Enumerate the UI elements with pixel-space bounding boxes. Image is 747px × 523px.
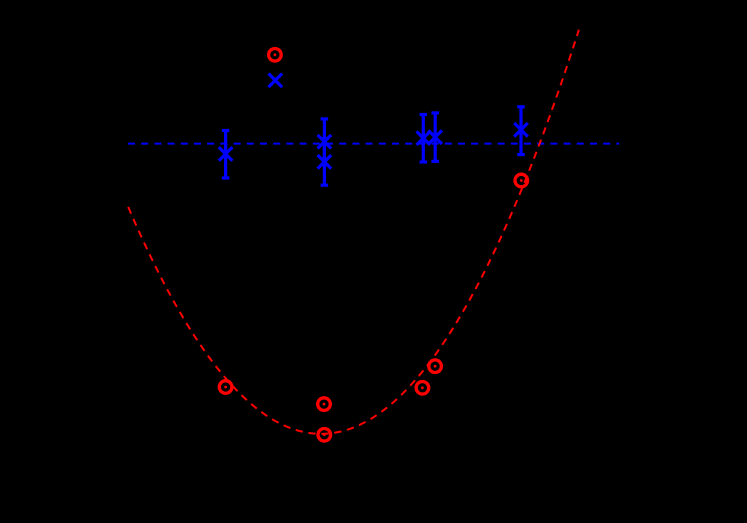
blue X marker 5 (435.2,137.2) [428,130,442,144]
blue X marker 7 outlier (275.3,80.3) [269,74,283,88]
blue X marker 6 (521.0,129.8) [514,123,528,137]
red circle marker c (324.0,404.1) with center dot [318,398,331,411]
red dashed parabola (model curve) [128,30,579,434]
errorbar for blue point 6 (x=521.0) [517,107,525,155]
red circle marker e (422.4,387.8) with center dot [416,382,429,395]
red circle marker b (225.6,387.0) with center dot [219,381,232,394]
errorbar for blue point 1 (x=225.6) [222,131,230,179]
blue dashed baseline (horizontal fit line) [128,143,619,145]
errorbar for blue point 2 (x=324.4 upper) [321,119,329,165]
red circle marker f (435.1,366.2) with center dot [429,360,442,373]
errorbar for blue point 4 (x=423.3) [420,115,428,163]
red circle marker g (521.3,180.5) with center dot [515,174,528,187]
errorbar for blue point 3 (x=324.4 lower) [321,139,329,185]
blue X marker 4 (423.3,138.2) [417,131,431,145]
blue X marker 3 (324.4,161.8) [318,155,332,169]
red circle marker a (274.9,54.8) with center dot [269,49,282,62]
blue X marker 2 (324.4,141.7) [318,135,332,149]
errorbar for blue point 5 (x=435.2) [431,113,439,161]
blue X marker 1 (225.6,153.9) [219,147,233,161]
red circle marker d (324.3,434.8) with center dot [318,429,331,442]
